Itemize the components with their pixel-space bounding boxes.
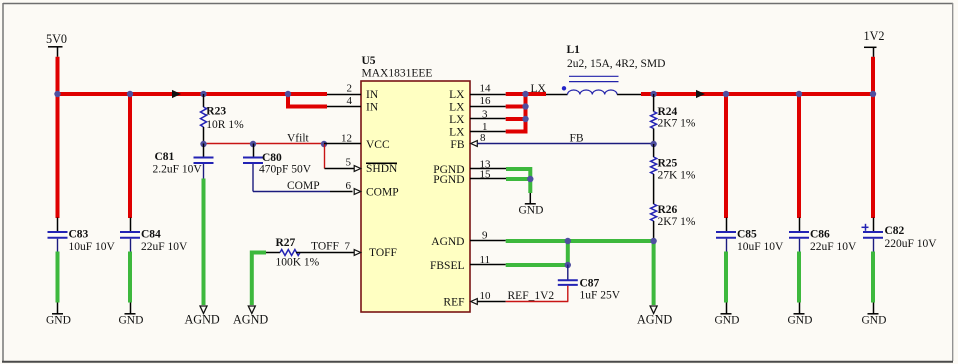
resistor R27: [266, 237, 354, 269]
wire C85 drop: [724, 92, 728, 218]
node LX pin3: [522, 116, 528, 122]
capacitor C84: [120, 218, 188, 254]
wire R27 green to AGND: [252, 253, 266, 306]
wire PGND green: [506, 169, 530, 193]
svg-text:2: 2: [347, 83, 353, 95]
node LX pin14: [522, 91, 528, 97]
svg-text:16: 16: [480, 95, 492, 107]
svg-text:C83: C83: [69, 229, 89, 241]
wire C86 drop: [797, 92, 801, 218]
svg-text:R24: R24: [658, 106, 678, 118]
wire 1V2 column: [871, 57, 875, 218]
svg-text:IN: IN: [366, 102, 379, 114]
capacitor C80: [243, 144, 312, 192]
svg-text:SHDN: SHDN: [366, 163, 398, 175]
wire C82 green: [871, 252, 875, 303]
wire C81 green to AGND: [202, 179, 206, 306]
node PGND: [527, 176, 533, 182]
svg-text:GND: GND: [46, 314, 71, 326]
svg-text:1uF 25V: 1uF 25V: [580, 290, 621, 302]
svg-text:REF_1V2: REF_1V2: [508, 290, 555, 302]
svg-text:COMP: COMP: [366, 187, 399, 199]
svg-text:PGND: PGND: [433, 174, 464, 186]
node R23/C81: [200, 141, 206, 147]
resistor R23: [201, 94, 245, 144]
svg-text:C85: C85: [737, 229, 757, 241]
ground AGND (R27): [233, 306, 268, 327]
svg-text:GND: GND: [119, 314, 144, 326]
svg-text:TOFF: TOFF: [311, 241, 339, 253]
pin 1: [470, 121, 506, 133]
resistor R26: [651, 204, 696, 241]
node bus/C84: [127, 91, 133, 97]
svg-text:22uF 10V: 22uF 10V: [141, 241, 188, 253]
wire C85 green: [724, 252, 728, 303]
node bus/5V0: [54, 91, 60, 97]
svg-text:5V0: 5V0: [46, 32, 67, 46]
svg-text:L1: L1: [567, 44, 581, 56]
svg-text:2u2, 15A, 4R2, SMD: 2u2, 15A, 4R2, SMD: [567, 58, 665, 70]
svg-text:11: 11: [480, 254, 491, 266]
svg-text:GND: GND: [519, 204, 544, 216]
wire 5V0 vertical to C83: [56, 57, 60, 218]
wire FB net: [478, 143, 654, 145]
pin 6: [330, 180, 361, 194]
node bus/R24: [650, 91, 656, 97]
svg-text:C86: C86: [810, 229, 830, 241]
svg-text:IN: IN: [366, 89, 379, 101]
node bus/C86: [796, 91, 802, 97]
svg-text:7: 7: [345, 241, 351, 253]
svg-text:FB: FB: [570, 133, 584, 145]
svg-text:6: 6: [346, 180, 352, 192]
capacitor C83: [48, 218, 116, 254]
svg-text:VCC: VCC: [366, 139, 390, 151]
ground AGND (C81): [185, 306, 220, 327]
svg-text:GND: GND: [862, 314, 887, 326]
node Vfilt/C80: [250, 141, 256, 147]
svg-text:C82: C82: [885, 225, 905, 237]
svg-text:LX: LX: [449, 114, 465, 126]
pin 9: [470, 230, 506, 242]
wire C84 drop: [128, 92, 132, 218]
wire AGND net green: [506, 241, 654, 305]
svg-text:1V2: 1V2: [864, 29, 885, 43]
svg-text:GND: GND: [715, 314, 740, 326]
svg-text:100K 1%: 100K 1%: [276, 257, 320, 269]
bus arrow right: [696, 90, 705, 98]
node bus/1V2: [870, 91, 876, 97]
capacitor C82 polarized: [862, 218, 938, 252]
svg-text:LX: LX: [449, 89, 465, 101]
svg-text:10uF 10V: 10uF 10V: [69, 241, 116, 253]
svg-text:R25: R25: [658, 158, 678, 170]
svg-text:12: 12: [341, 133, 352, 145]
ground AGND (R26): [637, 306, 672, 327]
svg-text:10uF 10V: 10uF 10V: [737, 241, 784, 253]
svg-text:27K 1%: 27K 1%: [658, 170, 696, 182]
wire LX stubs: [506, 92, 546, 132]
pin 11: [470, 254, 506, 266]
svg-text:4: 4: [347, 95, 353, 107]
svg-text:R27: R27: [276, 237, 296, 249]
pin 8 FB arrow: [471, 132, 486, 147]
svg-text:2K7 1%: 2K7 1%: [658, 216, 696, 228]
inductor L1: [546, 44, 665, 95]
node AGND/pin11/C87: [565, 262, 571, 268]
svg-text:AGND: AGND: [637, 313, 672, 327]
svg-text:COMP: COMP: [287, 180, 320, 192]
wire pin4 branch: [288, 92, 327, 107]
svg-text:470pF 50V: 470pF 50V: [259, 164, 312, 176]
ground GND (PGND): [519, 193, 544, 216]
wire REF net: [506, 301, 569, 303]
svg-text:5: 5: [346, 157, 352, 169]
ground GND (C82): [862, 303, 887, 327]
pin 4: [327, 95, 361, 107]
wire C84 green: [128, 252, 132, 303]
pin 16: [470, 95, 506, 107]
pin 13: [470, 158, 506, 170]
node Vfilt/VCC: [321, 141, 327, 147]
svg-text:R26: R26: [658, 204, 678, 216]
node AGND/pin9: [565, 238, 571, 244]
wire main 5V0 bus: [56, 92, 328, 96]
power terminal 1V2: [864, 29, 885, 57]
svg-text:220uF 10V: 220uF 10V: [885, 238, 938, 250]
svg-text:FBSEL: FBSEL: [430, 260, 465, 272]
pin 12: [324, 133, 361, 145]
ground GND (C85): [715, 303, 740, 327]
svg-text:10: 10: [480, 290, 492, 302]
ground GND (C84): [119, 303, 144, 327]
pin 7: [345, 241, 361, 256]
svg-text:AGND: AGND: [431, 236, 464, 248]
svg-text:C81: C81: [155, 151, 175, 163]
svg-text:2.2uF 10V: 2.2uF 10V: [153, 164, 203, 176]
svg-text:10R 1%: 10R 1%: [206, 119, 244, 131]
node bus/pin4: [285, 91, 291, 97]
svg-text:14: 14: [480, 83, 492, 95]
svg-text:FB: FB: [450, 139, 464, 151]
capacitor C81: [153, 144, 214, 179]
svg-text:3: 3: [482, 108, 488, 120]
node AGND/R26: [650, 238, 656, 244]
svg-text:AGND: AGND: [185, 313, 220, 327]
pin 3: [470, 108, 506, 120]
wire C83 green: [56, 252, 60, 303]
wire Vfilt: [204, 143, 325, 145]
ground GND (C86): [788, 303, 813, 327]
svg-text:TOFF: TOFF: [369, 247, 397, 259]
svg-text:C80: C80: [262, 152, 282, 164]
pin 5: [325, 157, 361, 172]
pin 14: [470, 83, 506, 95]
node bus/R23: [200, 91, 206, 97]
bus arrow left: [172, 90, 181, 98]
svg-text:C84: C84: [141, 229, 161, 241]
pin 15: [470, 168, 506, 180]
capacitor C87: [558, 265, 621, 302]
svg-text:22uF 10V: 22uF 10V: [810, 241, 857, 253]
svg-text:15: 15: [480, 168, 492, 180]
svg-text:AGND: AGND: [233, 313, 268, 327]
resistor R24: [651, 94, 696, 144]
node FB/R24/R25: [650, 141, 656, 147]
svg-text:Vfilt: Vfilt: [287, 133, 310, 145]
svg-text:REF: REF: [443, 297, 464, 309]
svg-text:GND: GND: [788, 314, 813, 326]
svg-text:R23: R23: [206, 106, 226, 118]
op-amp U5 chip body: [361, 55, 470, 312]
capacitor C85: [716, 218, 784, 254]
svg-text:9: 9: [482, 230, 488, 242]
svg-text:C87: C87: [580, 278, 600, 290]
resistor R25: [651, 144, 696, 204]
svg-text:8: 8: [480, 132, 486, 144]
ground GND (C83): [46, 303, 71, 327]
pin 10 REF arrow: [471, 290, 506, 304]
node bus/C85: [723, 91, 729, 97]
wire output bus: [641, 92, 875, 96]
power terminal 5V0: [46, 32, 67, 57]
capacitor C86: [789, 218, 857, 254]
svg-text:MAX1831EEE: MAX1831EEE: [362, 68, 433, 80]
svg-text:LX: LX: [449, 127, 465, 139]
pin 2: [327, 83, 361, 95]
svg-text:LX: LX: [449, 102, 465, 114]
node LX pin16: [522, 103, 528, 109]
wire COMP net: [253, 191, 330, 193]
svg-text:U5: U5: [362, 55, 376, 67]
wire C86 green: [797, 252, 801, 303]
svg-text:2K7 1%: 2K7 1%: [658, 118, 696, 130]
svg-text:LX: LX: [531, 83, 547, 95]
wire Vfilt to SHDN: [324, 144, 326, 169]
